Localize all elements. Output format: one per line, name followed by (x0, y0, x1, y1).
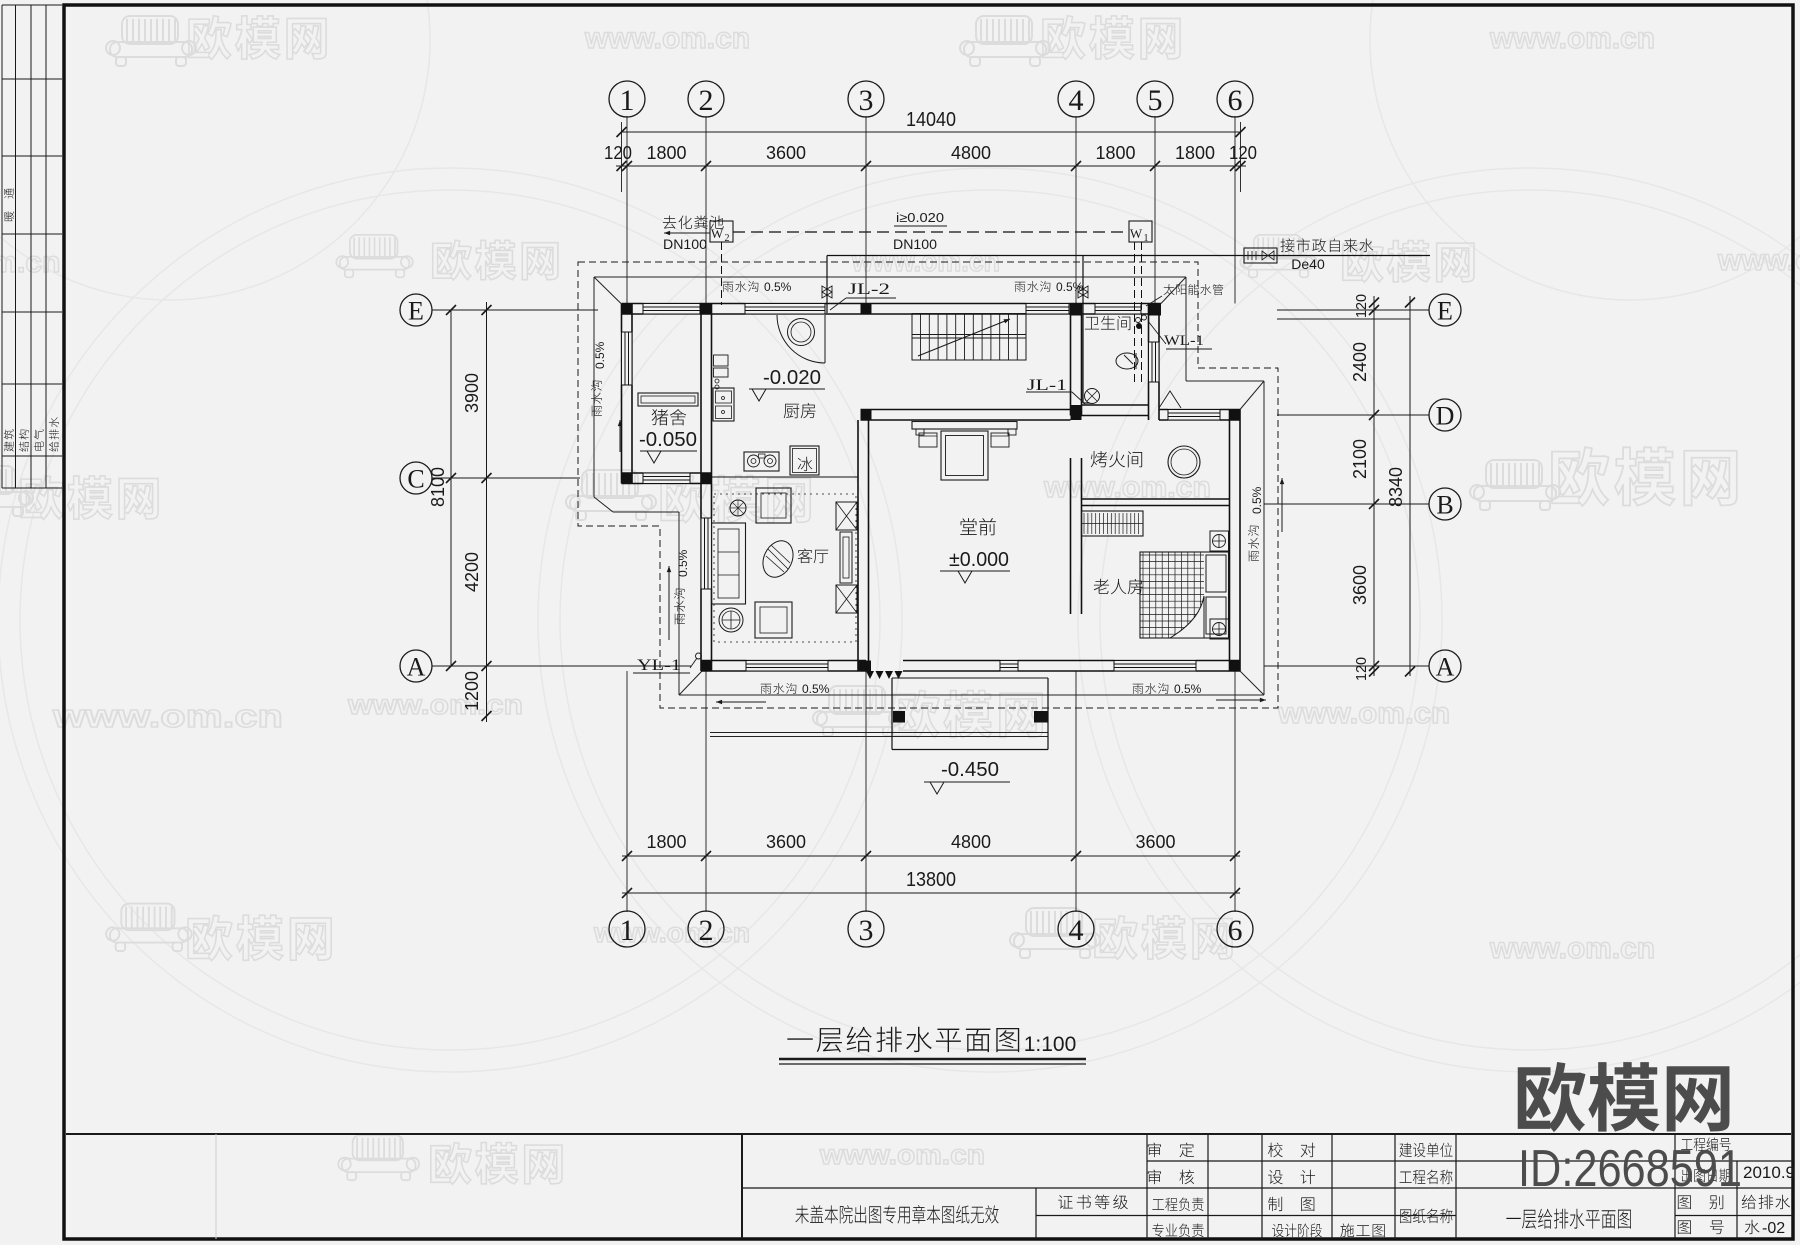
svg-text:3600: 3600 (766, 143, 806, 163)
furniture and plumbing fixtures (824, 315, 826, 363)
svg-text:6: 6 (1228, 914, 1243, 947)
svg-text:E: E (1437, 296, 1453, 325)
piping: sewage W1/W2, water main, risers JL-1 JL-2 WL-1 YL-1 (733, 231, 1129, 233)
svg-text:3600: 3600 (1350, 565, 1370, 605)
dimension lines and labels (621, 122, 623, 192)
svg-text:6: 6 (1228, 84, 1243, 117)
svg-text:www.om.cn: www.om.cn (819, 1139, 985, 1170)
grid bubbles 1-6, A-E (609, 81, 645, 117)
svg-text:1: 1 (620, 914, 635, 947)
svg-text:C: C (407, 464, 424, 493)
svg-text:W: W (711, 226, 724, 241)
svg-text:WL-1: WL-1 (1164, 333, 1204, 349)
svg-text:1200: 1200 (462, 671, 482, 711)
svg-text:120: 120 (1229, 143, 1257, 163)
svg-text:4: 4 (1069, 914, 1084, 947)
svg-text:4: 4 (1069, 84, 1084, 117)
svg-text:4200: 4200 (462, 552, 482, 592)
svg-text:-0.450: -0.450 (941, 759, 999, 781)
svg-text:ID:2668591: ID:2668591 (1518, 1140, 1742, 1198)
svg-text:DN100: DN100 (893, 236, 937, 252)
svg-text:www.om.cn: www.om.cn (1489, 22, 1655, 55)
svg-text:0.5%: 0.5% (676, 549, 690, 577)
svg-text:DN100: DN100 (663, 236, 707, 252)
svg-text:0.5%: 0.5% (764, 280, 792, 294)
left signature table strip (1, 5, 3, 488)
svg-text:B: B (1436, 490, 1453, 519)
svg-text:0.5%: 0.5% (1174, 682, 1202, 696)
svg-text:www.om.cn: www.om.cn (1277, 697, 1450, 730)
grid axis lines (626, 116, 628, 304)
watermark logo 欧模网 ID:2668591 (1518, 1062, 1730, 1132)
svg-text:A: A (407, 652, 426, 681)
svg-text:E: E (408, 296, 424, 325)
svg-text:2: 2 (725, 233, 730, 244)
svg-text:2010.9: 2010.9 (1743, 1163, 1795, 1182)
svg-text:www.om.cn: www.om.cn (347, 689, 523, 720)
svg-text:8100: 8100 (428, 467, 448, 507)
svg-text:www.om.cn: www.om.cn (1489, 932, 1655, 965)
svg-text:-0.020: -0.020 (763, 367, 821, 389)
svg-text:5: 5 (1148, 84, 1163, 117)
svg-text:1:100: 1:100 (1024, 1033, 1077, 1056)
svg-text:1800: 1800 (647, 143, 687, 163)
svg-text:8340: 8340 (1386, 467, 1406, 507)
svg-text:0.5%: 0.5% (1250, 486, 1264, 514)
svg-text:www.om.cn: www.om.cn (52, 698, 283, 734)
watermark layer: sofa logos, text (106, 16, 196, 66)
svg-text:YL-1: YL-1 (637, 657, 681, 674)
svg-text:1800: 1800 (1096, 143, 1136, 163)
svg-text:0.5%: 0.5% (802, 682, 830, 696)
svg-text:120: 120 (604, 143, 632, 163)
svg-text:4800: 4800 (951, 143, 991, 163)
roof eave outline and rain gutter dashed loop (594, 276, 1186, 278)
svg-text:3: 3 (859, 84, 874, 117)
svg-text:-02: -02 (1762, 1220, 1785, 1237)
svg-text:4800: 4800 (951, 832, 991, 852)
svg-text:2: 2 (699, 914, 714, 947)
svg-text:De40: De40 (1291, 256, 1325, 272)
svg-text:www.om.cn: www.om.cn (1717, 244, 1800, 277)
svg-text:A: A (1436, 652, 1455, 681)
svg-text:120: 120 (1353, 294, 1370, 318)
svg-text:0.5%: 0.5% (1056, 280, 1084, 294)
svg-text:13800: 13800 (906, 869, 956, 891)
svg-text:0.5%: 0.5% (593, 341, 607, 369)
svg-text:1800: 1800 (1175, 143, 1215, 163)
svg-text:2100: 2100 (1350, 439, 1370, 479)
svg-text:-0.050: -0.050 (639, 429, 697, 451)
svg-text:3900: 3900 (462, 373, 482, 413)
svg-text:JL-2: JL-2 (848, 281, 890, 298)
svg-text:JL-1: JL-1 (1027, 377, 1067, 394)
svg-text:3600: 3600 (766, 832, 806, 852)
svg-text:3600: 3600 (1136, 832, 1176, 852)
svg-text:D: D (1436, 401, 1455, 430)
svg-text:14040: 14040 (906, 109, 956, 131)
svg-text:1800: 1800 (647, 832, 687, 852)
building walls with windows and columns (622, 303, 1162, 305)
drawing title 一层给排水平面图 1:100 (787, 1027, 1019, 1053)
svg-text:1: 1 (620, 84, 635, 117)
svg-text:120: 120 (1353, 657, 1370, 681)
svg-text:www.om.cn: www.om.cn (584, 22, 750, 55)
staircase (912, 314, 1026, 361)
title block table (66, 1133, 1791, 1135)
svg-text:om.cn: om.cn (0, 246, 60, 279)
svg-text:2: 2 (699, 84, 714, 117)
svg-text:2400: 2400 (1350, 342, 1370, 382)
svg-text:3: 3 (859, 914, 874, 947)
svg-text:i≥0.020: i≥0.020 (896, 210, 944, 225)
room name labels and level marks (652, 409, 687, 425)
svg-text:1: 1 (1144, 233, 1149, 244)
svg-text:±0.000: ±0.000 (949, 549, 1009, 571)
svg-text:W: W (1130, 226, 1143, 241)
